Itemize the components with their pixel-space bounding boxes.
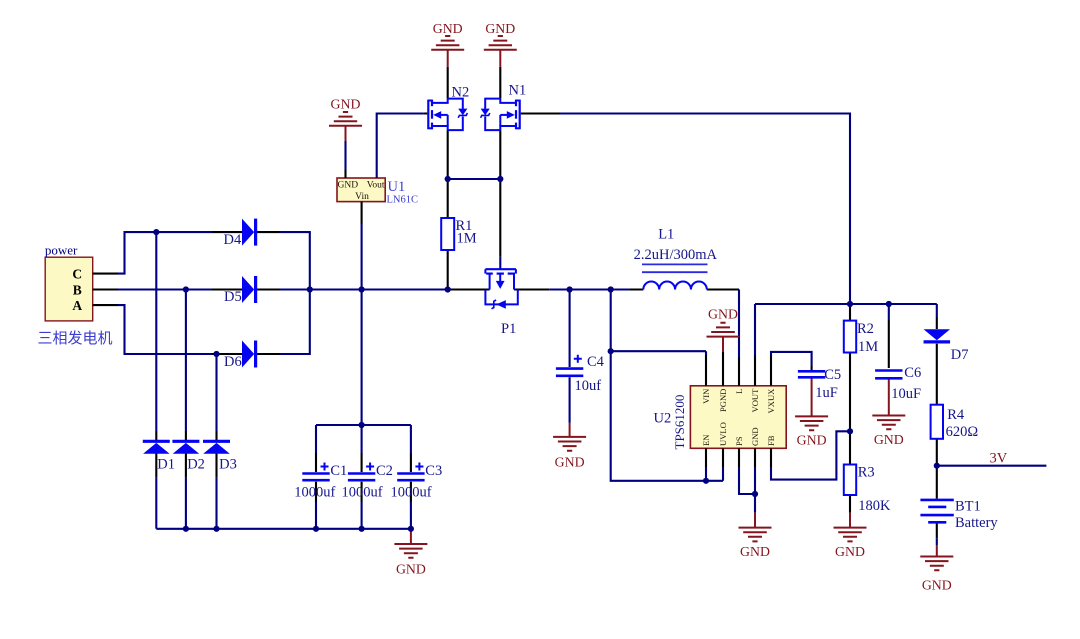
- svg-text:GND: GND: [835, 544, 865, 559]
- svg-text:Vout: Vout: [367, 181, 385, 191]
- svg-text:B: B: [73, 282, 82, 297]
- svg-text:D5: D5: [224, 289, 242, 305]
- svg-text:FB: FB: [766, 435, 776, 446]
- svg-text:N2: N2: [452, 85, 470, 101]
- svg-text:BT1: BT1: [955, 499, 981, 515]
- svg-text:EN: EN: [701, 434, 711, 446]
- svg-text:1M: 1M: [858, 339, 878, 355]
- svg-text:GND: GND: [331, 97, 361, 112]
- svg-text:C5: C5: [824, 367, 841, 383]
- svg-text:C1: C1: [330, 463, 347, 479]
- svg-text:10uf: 10uf: [575, 378, 602, 394]
- svg-text:GND: GND: [922, 578, 952, 593]
- svg-text:Battery: Battery: [955, 515, 998, 531]
- svg-text:A: A: [72, 298, 82, 313]
- svg-text:C4: C4: [587, 354, 605, 370]
- svg-text:D6: D6: [224, 354, 242, 370]
- svg-text:VOUT: VOUT: [750, 388, 760, 413]
- svg-text:VXUX: VXUX: [766, 388, 776, 414]
- svg-text:UVLO: UVLO: [718, 422, 728, 446]
- svg-text:GND: GND: [396, 561, 426, 576]
- svg-text:power: power: [45, 243, 78, 258]
- svg-text:U1: U1: [388, 179, 406, 195]
- svg-text:GND: GND: [750, 427, 760, 446]
- svg-text:3V: 3V: [990, 451, 1008, 467]
- svg-text:PGND: PGND: [718, 389, 728, 412]
- svg-text:D1: D1: [157, 456, 175, 472]
- svg-text:LN61C: LN61C: [387, 194, 419, 205]
- svg-text:L1: L1: [658, 226, 674, 242]
- svg-text:P1: P1: [501, 321, 516, 337]
- svg-text:GND: GND: [555, 455, 585, 470]
- svg-text:GND: GND: [338, 181, 359, 191]
- svg-text:C: C: [72, 266, 82, 281]
- svg-text:三相发电机: 三相发电机: [38, 330, 113, 347]
- svg-text:R4: R4: [947, 407, 965, 423]
- svg-text:D2: D2: [187, 456, 205, 472]
- svg-text:L: L: [734, 389, 744, 394]
- svg-text:U2: U2: [654, 411, 672, 427]
- svg-text:C2: C2: [376, 463, 393, 479]
- svg-text:C3: C3: [425, 463, 442, 479]
- svg-text:10uF: 10uF: [891, 386, 921, 402]
- svg-text:620Ω: 620Ω: [946, 424, 979, 440]
- svg-text:GND: GND: [797, 433, 827, 448]
- svg-text:TPS61200: TPS61200: [672, 395, 687, 450]
- svg-text:R2: R2: [857, 321, 874, 337]
- svg-text:GND: GND: [708, 306, 738, 321]
- svg-text:1M: 1M: [457, 231, 477, 247]
- svg-text:N1: N1: [509, 83, 527, 99]
- svg-text:1000uf: 1000uf: [391, 485, 432, 501]
- svg-text:GND: GND: [740, 544, 770, 559]
- svg-text:GND: GND: [485, 21, 515, 36]
- svg-text:Vin: Vin: [355, 192, 369, 202]
- svg-text:1000uf: 1000uf: [294, 485, 335, 501]
- svg-text:1uF: 1uF: [815, 385, 838, 401]
- svg-text:D4: D4: [224, 232, 242, 248]
- svg-text:D7: D7: [951, 347, 969, 363]
- svg-text:PS: PS: [734, 436, 744, 446]
- svg-text:2.2uH/300mA: 2.2uH/300mA: [634, 247, 718, 263]
- svg-text:1000uf: 1000uf: [342, 485, 383, 501]
- svg-text:GND: GND: [433, 21, 463, 36]
- svg-text:D3: D3: [219, 456, 237, 472]
- svg-text:VIN: VIN: [701, 388, 711, 404]
- svg-text:180K: 180K: [858, 498, 891, 514]
- svg-text:C6: C6: [904, 365, 921, 381]
- svg-text:R3: R3: [858, 464, 875, 480]
- svg-text:GND: GND: [874, 432, 904, 447]
